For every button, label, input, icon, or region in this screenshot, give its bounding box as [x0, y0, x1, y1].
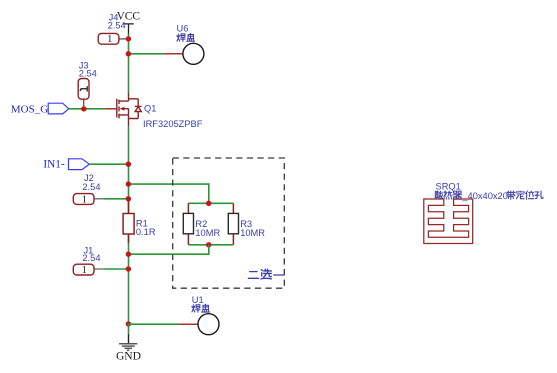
svg-text:1: 1 [107, 34, 112, 45]
junction: J1 node [126, 266, 131, 271]
drain stub and pin [119, 93, 129, 101]
svg-text:1: 1 [82, 195, 87, 206]
power flag VCC [117, 10, 140, 34]
source stub and bottom rail [119, 99, 138, 119]
net flag MOS_G [11, 103, 69, 115]
svg-text:0.1R: 0.1R [136, 227, 156, 237]
transistor Q1 [105, 93, 141, 127]
junction: gate node [81, 106, 86, 111]
channel segments [118, 100, 120, 119]
connector J3 [78, 60, 97, 109]
resistor R1 [123, 199, 156, 243]
wire: to pad U1 [129, 323, 179, 325]
svg-text:2.54: 2.54 [82, 182, 100, 192]
source pin [128, 119, 130, 127]
wire: top rail [188, 202, 233, 204]
svg-text:IN1-: IN1- [43, 159, 65, 171]
wire: main vertical VCC to Q1 drain [128, 34, 130, 93]
svg-text:GND: GND [116, 350, 141, 363]
gate bar [116, 99, 118, 118]
wire: main vertical Q1 source down to GND node [128, 126, 130, 324]
svg-text:2.54: 2.54 [79, 69, 97, 79]
junction: top rail [206, 201, 211, 206]
diode cathode bar [135, 105, 142, 107]
dashed selection box [173, 158, 285, 288]
svg-text:10MR: 10MR [195, 228, 220, 238]
junction: branch top [126, 181, 131, 186]
svg-text:SRQ1: SRQ1 [436, 182, 461, 192]
junction: J4 to main wire [126, 36, 131, 41]
wire: bottom rail [188, 244, 233, 246]
gate arrow [120, 107, 125, 111]
wire: to pad U6 [129, 53, 164, 55]
body diode branch [137, 99, 139, 119]
diode triangle [135, 107, 141, 112]
svg-text:Q1: Q1 [144, 103, 156, 113]
gate pin [105, 108, 116, 110]
resistor R2 [183, 203, 220, 245]
connector J1 [73, 246, 103, 277]
resistor R3 [228, 203, 265, 245]
net flag IN1- [43, 159, 89, 171]
svg-text:2.54: 2.54 [108, 21, 126, 31]
svg-text:MOS_G: MOS_G [11, 104, 48, 116]
junction: bottom rail [206, 242, 211, 247]
wire: J2 to main [103, 198, 128, 200]
wire: MOS_G to gate junction [69, 108, 105, 110]
text 二选一 [248, 269, 284, 279]
connector J2 [73, 173, 103, 205]
wire: branch to R2/R3 top [129, 184, 209, 203]
wire: J1 to main [103, 268, 128, 270]
pad U1 [179, 295, 219, 335]
junction: GND node [126, 321, 131, 326]
pad U6 [164, 23, 204, 64]
svg-text:1: 1 [82, 265, 87, 276]
svg-text:U1: U1 [192, 295, 204, 305]
connector J4 [98, 13, 127, 46]
wire: IN1- to main [89, 163, 128, 165]
wire: bottom branch back to main [129, 245, 209, 254]
svg-text:2.54: 2.54 [82, 253, 100, 263]
heatsink SRQ1 [424, 182, 543, 244]
ground [116, 324, 141, 363]
junction: J2 node [126, 196, 131, 201]
mid stub / body connection [124, 109, 128, 119]
junction: U6 branch [126, 51, 131, 56]
junction: IN1- node [126, 162, 131, 167]
svg-text:U6: U6 [177, 23, 189, 33]
svg-text:IRF3205ZPBF: IRF3205ZPBF [143, 119, 203, 129]
junction: bottom branch at main [126, 252, 131, 257]
svg-text:10MR: 10MR [240, 228, 265, 238]
